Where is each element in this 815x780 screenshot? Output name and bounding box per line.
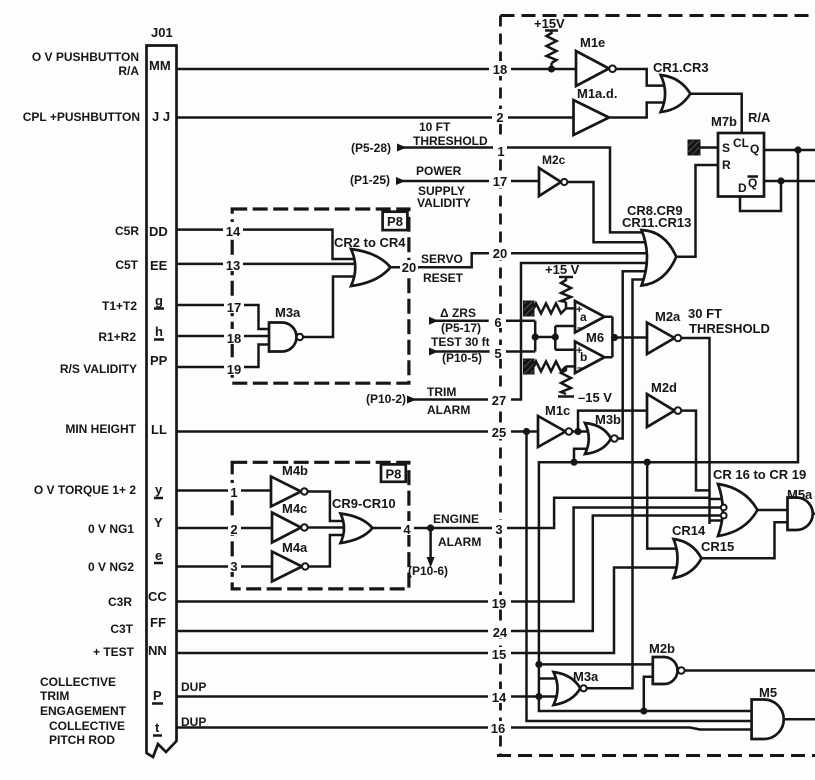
svg-text:LL: LL xyxy=(151,422,167,437)
svg-text:18: 18 xyxy=(493,62,507,77)
bubble CR16-19 input 2 xyxy=(721,513,727,519)
wire M4c output to CR9-CR10 xyxy=(308,526,348,529)
pin 3 xyxy=(492,520,507,537)
resistor horizontal to comparator b input xyxy=(534,361,566,371)
pin 14 P8 xyxy=(223,222,243,239)
svg-text:4: 4 xyxy=(403,522,411,537)
svg-text:VALIDITY: VALIDITY xyxy=(417,196,471,210)
wire M3b bottom input from bus y462 xyxy=(574,449,590,463)
inverter M2a xyxy=(647,323,675,355)
junction M2b top input xyxy=(535,661,542,668)
wire pin5 test 30ft xyxy=(429,350,535,353)
arrow delta ZRS xyxy=(429,317,439,325)
pin 25 xyxy=(488,425,511,440)
svg-text:MM: MM xyxy=(149,58,171,73)
wire M2d input from M1c output node xyxy=(578,411,647,432)
svg-text:FF: FF xyxy=(150,615,166,630)
nor-gate M3a lower xyxy=(554,672,581,705)
svg-text:+ TEST: + TEST xyxy=(93,645,135,659)
svg-text:16: 16 xyxy=(491,721,505,736)
wire M4b output to CR9-CR10 xyxy=(308,492,348,522)
svg-text:J01: J01 xyxy=(151,25,173,40)
svg-text:D: D xyxy=(738,181,747,195)
svg-text:CR14: CR14 xyxy=(672,523,706,538)
inverter M4a xyxy=(272,552,302,582)
wire pin1 10FT threshold to CR8 input xyxy=(397,148,655,233)
svg-text:M1c: M1c xyxy=(545,403,570,418)
pin 2 xyxy=(492,109,508,125)
svg-text:CPL +PUSHBUTTON: CPL +PUSHBUTTON xyxy=(23,110,140,124)
svg-text:THRESHOLD: THRESHOLD xyxy=(689,321,770,336)
wire CR16-19 output to M5a input xyxy=(758,509,788,512)
wire M1c output node to M3b top input xyxy=(572,430,590,433)
wire CR16-19 input stubs xyxy=(710,499,723,521)
arrow test 30ft xyxy=(429,348,439,356)
hatch block S input xyxy=(688,140,700,155)
svg-text:J J: J J xyxy=(152,109,170,124)
wire pin17 power supply validity to M2c xyxy=(396,180,539,183)
svg-text:THRESHOLD: THRESHOLD xyxy=(413,134,488,148)
svg-text:14: 14 xyxy=(226,224,241,239)
svg-text:RESET: RESET xyxy=(423,271,464,285)
svg-text:14: 14 xyxy=(492,690,507,705)
wire CR8 output to M7b R xyxy=(676,165,718,257)
pin 19 P8 xyxy=(224,360,244,377)
junction engine alarm branch xyxy=(427,524,434,531)
junction M7b Q output xyxy=(794,146,801,153)
svg-text:DUP: DUP xyxy=(181,715,206,729)
svg-text:–15 V: –15 V xyxy=(578,390,612,405)
svg-text:17: 17 xyxy=(493,174,507,189)
svg-text:M4b: M4b xyxy=(282,463,308,478)
svg-text:P: P xyxy=(153,688,162,703)
svg-text:TEST 30 ft: TEST 30 ft xyxy=(431,335,490,349)
wire EE pin13 to CR2-CR4 xyxy=(177,263,361,266)
pin 18 xyxy=(489,61,511,77)
tag P8 upper xyxy=(383,212,408,230)
svg-text:M3a: M3a xyxy=(573,669,599,684)
svg-text:S: S xyxy=(722,141,730,155)
wire M7b Qbar output to right edge xyxy=(764,180,815,183)
svg-text:C3R: C3R xyxy=(108,595,132,609)
wire g pin17 to M3a xyxy=(177,305,272,329)
wire M2c output to CR8 input xyxy=(565,182,656,242)
svg-text:M3b: M3b xyxy=(595,412,621,427)
pin 16 xyxy=(488,721,511,736)
svg-text:C3T: C3T xyxy=(110,622,133,636)
svg-text:C5R: C5R xyxy=(115,224,139,238)
svg-text:Q: Q xyxy=(750,142,759,156)
svg-text:(P5-17): (P5-17) xyxy=(441,321,481,335)
svg-text:CR 16 to CR 19: CR 16 to CR 19 xyxy=(713,467,806,482)
wire S input hatch to M7b xyxy=(700,146,718,149)
junction comparator node 1 xyxy=(532,333,539,340)
svg-text:R/A: R/A xyxy=(748,110,771,125)
pin 2 P8 lower xyxy=(228,520,241,537)
pin 27 xyxy=(488,393,511,408)
wire M2a output down input bar of CR16-19 xyxy=(681,338,709,524)
svg-text:1: 1 xyxy=(497,144,504,159)
svg-text:(P10-2): (P10-2) xyxy=(366,392,406,406)
tag P8 lower xyxy=(381,464,406,481)
svg-text:3: 3 xyxy=(230,559,237,574)
wire M3a lower output riser to CR8 input xyxy=(587,280,650,689)
pin 3 P8 lower xyxy=(228,557,241,574)
pin 19 xyxy=(488,595,511,611)
svg-text:20: 20 xyxy=(402,260,416,275)
inverter M1e xyxy=(576,51,609,86)
flip-flop M7b xyxy=(718,133,764,197)
svg-text:PITCH ROD: PITCH ROD xyxy=(49,733,115,747)
or-gate CR1.CR3 xyxy=(661,75,691,112)
wire M3a lower top input stub xyxy=(539,677,560,680)
svg-text:R/A: R/A xyxy=(118,64,139,78)
svg-text:M2b: M2b xyxy=(649,641,675,656)
buffer M1a.d xyxy=(574,100,610,135)
wire JJ pin to M1a.d input xyxy=(177,116,574,119)
svg-text:M4c: M4c xyxy=(282,501,307,516)
svg-text:ALARM: ALARM xyxy=(438,535,481,549)
svg-text:CR2 to CR4: CR2 to CR4 xyxy=(334,235,406,250)
wire M1a.d output to CR1.CR3 xyxy=(609,103,663,118)
svg-text:18: 18 xyxy=(227,331,241,346)
svg-text:3: 3 xyxy=(495,522,502,537)
wire Y pin2 to M4c xyxy=(177,527,273,530)
wire Qbar loop to D input xyxy=(740,181,781,211)
inverter M2d xyxy=(647,394,675,427)
svg-text:M1e: M1e xyxy=(580,35,605,50)
or-gate CR16 to CR19 xyxy=(718,484,758,536)
svg-text:P8: P8 xyxy=(387,214,403,229)
svg-text:PP: PP xyxy=(150,353,168,368)
wire DD pin14 into P8 to CR2-CR4 xyxy=(177,230,361,259)
svg-text:M7b: M7b xyxy=(711,114,737,129)
junction M6 output xyxy=(611,334,618,341)
svg-text:2: 2 xyxy=(230,522,237,537)
pin 20 P8 output xyxy=(400,260,418,275)
svg-text:13: 13 xyxy=(226,258,240,273)
svg-text:O V PUSHBUTTON: O V PUSHBUTTON xyxy=(32,50,139,64)
wire +15V resistor lead to MM wire xyxy=(550,63,553,69)
dashed unit boundary top xyxy=(501,14,815,17)
wire M2b top input from x538 bus xyxy=(539,663,655,666)
svg-text:SERVO: SERVO xyxy=(421,252,463,266)
svg-text:CR15: CR15 xyxy=(701,539,734,554)
wire M2d output to CR16-19 bar xyxy=(681,411,709,491)
svg-text:M2c: M2c xyxy=(542,153,566,167)
svg-text:NN: NN xyxy=(148,643,167,658)
comparator a xyxy=(575,301,605,333)
dashed unit boundary bottom xyxy=(497,754,815,757)
nand-gate M3a upper xyxy=(269,323,297,352)
svg-text:g: g xyxy=(155,293,163,308)
svg-text:1: 1 xyxy=(230,485,237,500)
inverter M4b xyxy=(271,477,301,507)
wire PP pin19 to M3a xyxy=(177,345,272,368)
hatch block comparator a xyxy=(524,301,535,316)
pin 1 xyxy=(493,141,507,159)
svg-text:+15V: +15V xyxy=(534,16,565,31)
svg-text:15: 15 xyxy=(492,647,506,662)
junction M3b input on bus y462 xyxy=(570,459,577,466)
svg-text:+: + xyxy=(576,304,582,316)
wire M5a output xyxy=(812,512,815,515)
svg-text:t: t xyxy=(155,720,160,735)
resistor +15V to comparator a xyxy=(559,277,573,302)
svg-text:O V TORQUE 1+ 2: O V TORQUE 1+ 2 xyxy=(34,483,136,497)
svg-text:(P5-28): (P5-28) xyxy=(351,141,391,155)
svg-text:R: R xyxy=(722,158,731,172)
wire comparator input node verticals xyxy=(535,321,575,352)
svg-text:CR9-CR10: CR9-CR10 xyxy=(332,496,396,511)
wire M3b output riser to CR8 input xyxy=(618,271,655,438)
wire M6 output bar xyxy=(605,317,648,358)
pin 17 xyxy=(489,174,511,189)
or-gate CR14 CR15 xyxy=(674,539,702,578)
pin 5 xyxy=(491,345,506,361)
svg-text:19: 19 xyxy=(227,362,241,377)
svg-text:MIN HEIGHT: MIN HEIGHT xyxy=(65,422,136,436)
svg-text:y: y xyxy=(155,482,163,497)
or-gate CR8.CR9.CR11.CR13 xyxy=(642,230,677,286)
svg-text:10 FT: 10 FT xyxy=(419,120,451,134)
wire pin16 DUP t to M5 input xyxy=(177,728,752,730)
svg-text:CC: CC xyxy=(148,589,167,604)
svg-text:DD: DD xyxy=(149,224,168,239)
wire engine alarm branch arrow down xyxy=(429,528,432,557)
svg-text:ALARM: ALARM xyxy=(427,403,470,417)
pin 14 xyxy=(488,689,511,705)
wire comparator b minus lead xyxy=(566,365,575,368)
svg-text:–: – xyxy=(577,322,583,334)
dashed P8 box lower xyxy=(232,462,409,589)
nor-gate M3b xyxy=(585,423,611,454)
resistor horizontal to comparator a input xyxy=(534,303,566,313)
wire M3a output to CR2-CR4 xyxy=(303,277,360,338)
svg-text:(P10-6): (P10-6) xyxy=(408,564,448,578)
svg-text:(P10-5): (P10-5) xyxy=(442,351,482,365)
wire pin24 C3T riser to CR16-19 bubble input xyxy=(177,516,710,632)
wire h pin18 to M3a xyxy=(177,335,272,338)
wire pin25 min height to M1c xyxy=(177,430,539,433)
svg-text:24: 24 xyxy=(493,625,508,640)
wire pin19 C3R riser to CR16-19 bubble input xyxy=(177,508,710,602)
wire Q riser down right side to bus y462 xyxy=(539,150,798,711)
wire pin14 DUP p to M3a lower input xyxy=(177,695,561,698)
connector J01 body xyxy=(147,46,177,758)
svg-text:6: 6 xyxy=(494,315,501,330)
svg-text:ENGINE: ENGINE xyxy=(433,512,479,526)
svg-text:M4a: M4a xyxy=(282,540,308,555)
wire engine alarm from CR9-CR10 output to CR16-19 xyxy=(373,498,710,528)
svg-text:2: 2 xyxy=(496,110,503,125)
svg-text:R/S VALIDITY: R/S VALIDITY xyxy=(60,362,137,376)
svg-text:M6: M6 xyxy=(586,330,604,345)
wire M2b output to right edge xyxy=(685,669,815,672)
svg-text:CR11.CR13: CR11.CR13 xyxy=(622,215,691,230)
junction pin14 on x538 bus xyxy=(535,693,542,700)
svg-text:–: – xyxy=(577,362,583,374)
svg-text:M5: M5 xyxy=(759,685,777,700)
pin 15 xyxy=(488,647,511,662)
dashed unit boundary left vertical xyxy=(499,16,502,756)
svg-text:+: + xyxy=(576,345,582,357)
svg-text:17: 17 xyxy=(227,300,241,315)
wire MM pin to M1e input xyxy=(177,68,577,71)
pin 18 P8 xyxy=(224,329,244,346)
arrow engine alarm down to P10-6 xyxy=(427,557,435,568)
svg-text:+15 V: +15 V xyxy=(545,262,580,277)
junction M2b bottom input xyxy=(640,707,647,714)
wire pin27 trim alarm to CR8 input xyxy=(407,263,655,400)
svg-text:M1a.d.: M1a.d. xyxy=(577,86,617,101)
svg-text:h: h xyxy=(155,324,163,339)
arrow P1-25 xyxy=(396,177,406,185)
wire CR1.CR3 output to M7b CL xyxy=(690,94,741,133)
hatch block comparator b xyxy=(524,359,535,374)
bubble CR16-19 input 1 xyxy=(721,505,727,511)
pin 24 xyxy=(488,624,511,640)
svg-text:DUP: DUP xyxy=(181,680,206,694)
junction comparator node 2 xyxy=(552,333,559,340)
junction CR14 branch on bus y462 xyxy=(644,459,651,466)
svg-text:TRIM: TRIM xyxy=(427,385,456,399)
svg-text:C5T: C5T xyxy=(115,258,138,272)
or-gate CR2 to CR4 xyxy=(351,249,391,286)
svg-text:27: 27 xyxy=(492,393,506,408)
pin 17 P8 xyxy=(224,298,244,315)
svg-text:20: 20 xyxy=(493,246,507,261)
wire M1e output to CR1.CR3 xyxy=(616,69,663,86)
svg-text:Δ ZRS: Δ ZRS xyxy=(440,306,476,320)
comparator b xyxy=(575,342,605,374)
wire M4a output to CR9-CR10 xyxy=(308,535,348,567)
svg-text:0 V NG2: 0 V NG2 xyxy=(88,560,134,574)
pin 6 xyxy=(491,314,506,330)
resistor +15V to pin18 wire xyxy=(545,31,558,64)
arrow P10-2 xyxy=(407,396,417,404)
junction resistor on MM wire xyxy=(548,65,555,72)
or-gate CR9-CR10 xyxy=(341,514,373,544)
pin 4 P8 lower output xyxy=(401,521,414,537)
svg-text:5: 5 xyxy=(494,346,501,361)
arrow P5-28 xyxy=(397,144,407,152)
junction M1c output xyxy=(574,428,581,435)
pin 20 xyxy=(489,246,511,261)
inverter M4c xyxy=(272,513,301,543)
svg-text:25: 25 xyxy=(492,425,506,440)
svg-text:CL: CL xyxy=(733,136,749,150)
svg-text:0 V NG1: 0 V NG1 xyxy=(88,522,134,536)
svg-text:CR1.CR3: CR1.CR3 xyxy=(653,60,709,75)
inverter M1c xyxy=(538,416,566,447)
svg-text:P8: P8 xyxy=(385,467,401,482)
svg-text:M5a: M5a xyxy=(787,487,813,502)
svg-text:M2a: M2a xyxy=(655,309,681,324)
svg-text:COLLECTIVE: COLLECTIVE xyxy=(49,719,125,733)
svg-text:M2d: M2d xyxy=(651,380,677,395)
svg-text:ENGAGEMENT: ENGAGEMENT xyxy=(40,704,127,718)
svg-text:R1+R2: R1+R2 xyxy=(98,330,136,344)
pin 13 P8 xyxy=(223,256,243,273)
wire comparator a plus lead xyxy=(566,302,575,308)
junction M7b Qbar output xyxy=(777,177,784,184)
wire servo reset from CR2-CR4 output to CR8 input xyxy=(391,253,656,267)
svg-text:T1+T2: T1+T2 xyxy=(102,299,137,313)
wire bus y462 branch down to CR14 input xyxy=(647,462,680,548)
wire M5 output xyxy=(784,718,815,721)
svg-text:EE: EE xyxy=(150,258,168,273)
dashed P8 box upper xyxy=(232,209,409,383)
resistor comparator b to -15V xyxy=(558,366,574,396)
junction pin25 branch xyxy=(523,428,530,435)
wire y pin1 to M4b xyxy=(177,489,272,492)
and-gate M5a xyxy=(788,498,813,531)
pin 1 P8 lower xyxy=(228,483,241,500)
wire pin15 +TEST riser to CR15 input xyxy=(177,568,681,654)
and-gate M5 xyxy=(752,700,784,740)
wire M2b bottom input L from y711 bus xyxy=(644,677,655,711)
svg-text:30 FT: 30 FT xyxy=(688,306,722,321)
wire e pin3 to M4a xyxy=(177,565,273,568)
svg-text:COLLECTIVE: COLLECTIVE xyxy=(40,675,116,689)
svg-text:POWER: POWER xyxy=(416,164,462,178)
wire pin25 branch down to M5 input xyxy=(527,432,752,722)
nand-gate M2b xyxy=(653,657,678,684)
svg-text:TRIM: TRIM xyxy=(40,689,69,703)
wire pin6 delta ZRS xyxy=(429,320,535,323)
svg-text:Q: Q xyxy=(748,176,757,190)
svg-text:Y: Y xyxy=(154,515,163,530)
svg-text:M3a: M3a xyxy=(275,305,301,320)
svg-text:19: 19 xyxy=(492,596,506,611)
wire CR14-CR15 output to M5a input xyxy=(702,522,788,558)
svg-text:e: e xyxy=(155,548,162,563)
wire M7b Q output to right edge xyxy=(764,149,815,152)
svg-text:(P1-25): (P1-25) xyxy=(350,173,390,187)
inverter M2c xyxy=(539,168,561,196)
